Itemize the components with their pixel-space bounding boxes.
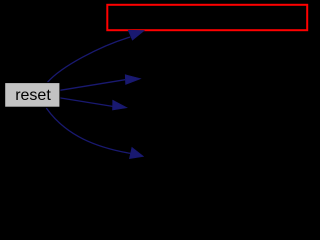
- svg-text:reset: reset: [15, 87, 51, 104]
- arrowhead edge2: [125, 75, 141, 85]
- node reset: [5, 83, 60, 108]
- wire edge4 reset->N5: [46, 108, 130, 153]
- arrowhead edge1: [128, 30, 144, 40]
- wire edge3 reset->N4: [60, 98, 113, 107]
- node N2 (current function, red box): [107, 5, 307, 30]
- arrowhead edge4: [129, 147, 143, 158]
- wire edge1 reset->N2: [47, 37, 130, 83]
- arrowhead edge3: [113, 100, 128, 110]
- wire edge2 reset->N3: [60, 80, 125, 91]
